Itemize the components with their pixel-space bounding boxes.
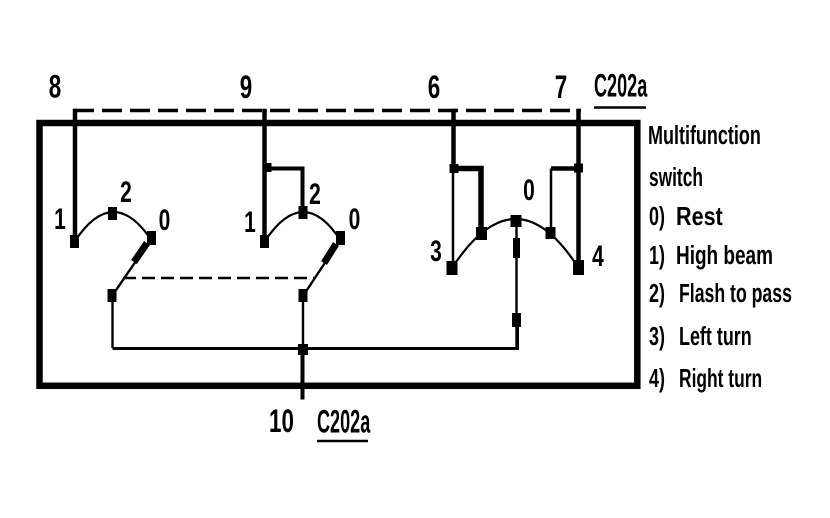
switch 2 lever — [303, 243, 338, 296]
switch 1 contact 0 — [147, 231, 156, 245]
svg-text:2: 2 — [120, 177, 132, 209]
switch 2 contact 2 — [299, 206, 308, 219]
svg-text:Rest: Rest — [676, 202, 723, 231]
svg-text:Multifunction: Multifunction — [648, 121, 761, 150]
svg-text:C202a: C202a — [594, 67, 648, 104]
svg-text:9: 9 — [240, 69, 252, 105]
svg-text:4): 4) — [649, 364, 665, 393]
connector label C202a bottom — [317, 403, 371, 441]
svg-text:High beam: High beam — [676, 240, 773, 270]
switch 2 pivot — [299, 289, 308, 302]
svg-text:0: 0 — [349, 204, 361, 236]
svg-text:switch: switch — [649, 162, 703, 191]
switch 3 pivot — [512, 313, 521, 327]
svg-text:1: 1 — [244, 207, 256, 239]
svg-text:3: 3 — [430, 236, 442, 268]
wire pin 6 branch to inner contact — [454, 169, 482, 229]
svg-text:2: 2 — [309, 179, 321, 211]
wire pin 7 branch horizontal — [551, 166, 579, 171]
legend item 2 — [649, 279, 792, 308]
svg-text:Flash to pass: Flash to pass — [679, 279, 792, 308]
switch 3 (turn signals) — [430, 175, 604, 348]
svg-text:1: 1 — [54, 204, 66, 236]
switch 3 inner left contact — [476, 227, 487, 240]
wire switch 1 pivot down — [111, 296, 113, 348]
mechanical link dashed line — [123, 277, 314, 279]
connector label C202a top — [594, 67, 648, 108]
switch 1 contact 1 — [70, 235, 79, 248]
switch 1 contact 2 — [108, 207, 117, 220]
wire switch 2 pivot down — [302, 296, 304, 350]
switch 3 contact 0 — [511, 215, 522, 227]
legend item 0 — [649, 202, 723, 232]
svg-text:10: 10 — [269, 403, 294, 439]
svg-text:8: 8 — [49, 69, 61, 105]
switch 2 contact 1 — [260, 235, 269, 248]
switch 2 contact arc — [265, 212, 341, 241]
switch 3 inner right contact — [546, 227, 556, 239]
svg-text:0): 0) — [649, 202, 665, 231]
switch 2 contact 0 — [336, 231, 345, 245]
wire pin 8 — [73, 109, 78, 238]
svg-text:Right turn: Right turn — [679, 364, 762, 393]
wire pin 6 lower — [452, 169, 455, 263]
legend item 4 — [649, 364, 762, 393]
svg-text:0: 0 — [159, 205, 171, 237]
wire pin 7 — [576, 109, 581, 263]
switch 3 lever arrowhead — [513, 238, 520, 258]
switch 1 contact arc — [75, 212, 152, 241]
svg-text:1): 1) — [649, 241, 665, 270]
svg-text:2): 2) — [649, 279, 665, 308]
switch 1 (high beam) — [54, 177, 170, 302]
junction common wire — [298, 344, 308, 355]
legend item 1 — [649, 240, 773, 270]
junction pin 7 branch — [574, 164, 583, 173]
legend item 3 — [649, 322, 752, 351]
switch 1 pivot — [108, 289, 117, 302]
wire pin 9 branch to contact 2 — [265, 169, 303, 209]
svg-text:6: 6 — [428, 69, 440, 105]
switch 3 contact arc — [452, 219, 579, 268]
switch 3 lever — [515, 226, 517, 348]
svg-text:0: 0 — [523, 175, 535, 207]
junction pin 9 branch — [263, 163, 272, 172]
wire pin 7 branch vertical to inner contact — [550, 169, 553, 228]
svg-text:7: 7 — [555, 69, 567, 105]
junction pin 6 branch — [450, 164, 459, 173]
svg-text:C202a: C202a — [317, 403, 371, 440]
switch 2 lever arrowhead — [324, 244, 336, 263]
dashed connector bus — [74, 109, 581, 113]
svg-text:3): 3) — [649, 322, 665, 351]
common wire to pin 10 — [113, 320, 518, 349]
wire pin 6 — [451, 109, 456, 169]
switch 1 lever — [112, 242, 149, 296]
svg-text:4: 4 — [592, 241, 604, 273]
multifunction switch body — [40, 123, 638, 386]
switch 3 contact 4 — [573, 260, 584, 275]
switch 1 lever arrowhead — [134, 243, 147, 262]
switch 2 (flash to pass) — [244, 179, 360, 302]
wire pin 9 — [262, 109, 267, 238]
svg-text:Left turn: Left turn — [679, 322, 752, 351]
wire pin 10 — [301, 350, 305, 400]
switch 3 contact 3 — [447, 261, 458, 275]
